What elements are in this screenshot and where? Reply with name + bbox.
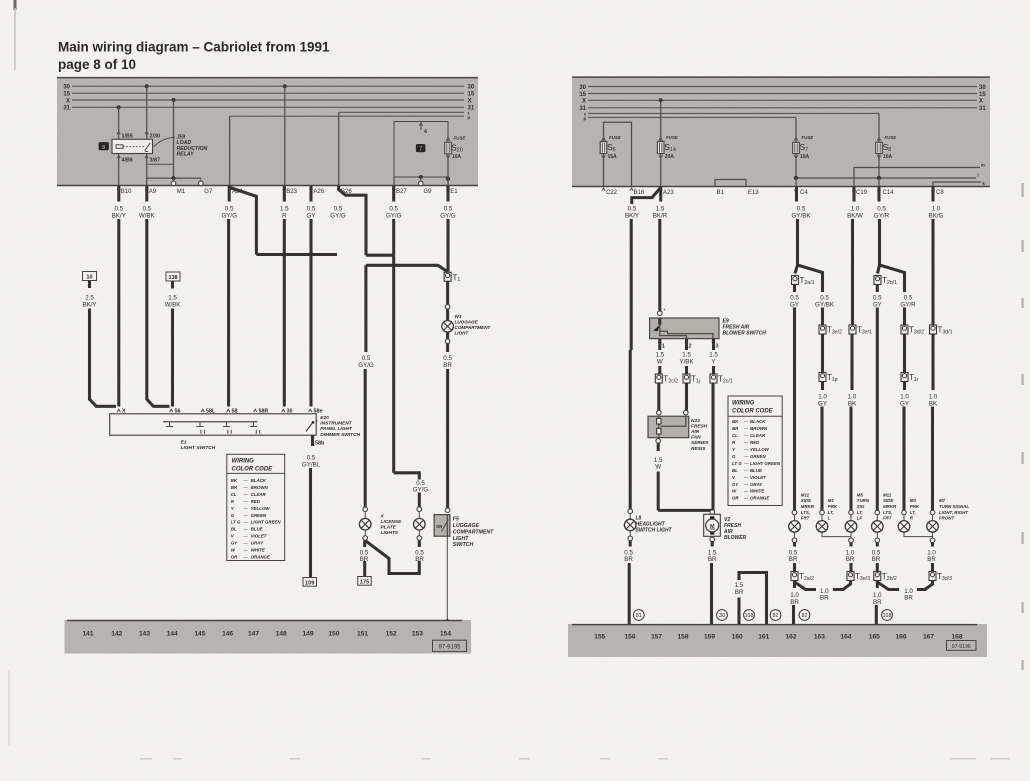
left license lamp [364, 512, 366, 519]
connector T3d/3 [929, 572, 936, 581]
E1 terminal 58R [254, 409, 257, 412]
relay position black box 7 [416, 144, 426, 152]
E1 terminal 58L [201, 409, 204, 412]
connector T1 on luggage light wire [446, 272, 449, 273]
terminal circle above N23 [657, 410, 662, 415]
fuse S20 symbol [446, 138, 450, 141]
connector T3e/1 [849, 325, 856, 334]
connector T3d/1 [930, 325, 937, 334]
fuse S14 [660, 100, 662, 186]
wire col5 down [903, 308, 906, 325]
wire below T2b/1 0.5 GY [876, 285, 879, 293]
relay terminal 1/B5 label [117, 132, 120, 135]
wire E1 0.5 GY/G down [446, 186, 449, 202]
wire A24 branch to bus jog [230, 188, 257, 255]
left license lamp bottom circle [363, 536, 368, 541]
right license lamp [418, 512, 420, 519]
wire pin2 1.5 Y/BK [685, 344, 688, 350]
connector T2a/1 [792, 276, 799, 285]
E9 internal wiring [660, 325, 713, 339]
wire A23 1.5 BK/R down [659, 187, 662, 202]
fuse S20 enclosure box [394, 122, 448, 186]
wire line z down to B26 [338, 112, 340, 185]
wire B26 jog to B27 [366, 254, 394, 257]
wire S20 to E1 exit [447, 177, 449, 186]
node on line31 at 1/B5 feed [117, 105, 121, 109]
wire pin3 1.5 Y [712, 344, 715, 350]
terminal circle above F5 [445, 508, 450, 513]
bus line 15 left [72, 92, 464, 94]
left panel gray band [57, 77, 478, 186]
wire A9 0.5 W/BK down with elbow to 56 [145, 186, 148, 202]
wire S8 to C14 [878, 178, 880, 187]
U wire to V2 [658, 510, 712, 515]
wiring color code box right [728, 396, 782, 506]
fuse S8 [878, 135, 880, 177]
node bus jog B23 [282, 252, 287, 257]
wire lineX down to A9 bar [173, 100, 175, 178]
wire B10 0.5 BK/Y down to light switch X [117, 186, 120, 202]
bus line 31 right [588, 107, 977, 109]
E1 internal contact [253, 422, 255, 427]
lamp W3 luggage compartment light [446, 309, 449, 321]
terminal circle pin2 end [684, 410, 689, 415]
wire T1 to W3 [446, 281, 449, 304]
terminal circle above W3 [445, 305, 450, 310]
node S20 to G9 [419, 175, 423, 179]
E1 terminal X [117, 409, 120, 412]
connector T2a/2 [791, 572, 798, 581]
wiring color code box left [227, 454, 285, 560]
E1 terminal 58 [227, 409, 230, 412]
node on lineX at A9 feed [172, 98, 176, 102]
node bus jog A26 [309, 252, 314, 257]
bottom left gray band [65, 620, 472, 654]
lamp M3 parking light right [902, 510, 907, 515]
connector T1j [683, 374, 690, 383]
wire lamp bottoms bridge [366, 541, 420, 574]
wire B26 0.5 GY/G jog right [339, 186, 366, 256]
fuse S7 [795, 135, 797, 178]
bus line X left [72, 99, 464, 101]
wire horizontal to T1 [366, 265, 448, 272]
wire col1 below T2a/2 to track 162 [793, 581, 796, 589]
wire C4 fork to right column [798, 265, 823, 292]
ground 108 track 165 [882, 610, 893, 621]
fuse S8 feed from line z [878, 113, 880, 135]
diagram number 97-9196 [947, 641, 977, 651]
lamp M5 turn signal left front [849, 510, 854, 515]
line m from C19 [854, 168, 980, 187]
relay terminal 4/B6 label [117, 155, 120, 158]
E1 internal contact pair [227, 430, 229, 434]
wire A23 elbow to B16 column [632, 188, 661, 205]
bridge col1-col3 1.0 BR [795, 582, 817, 590]
E1 internal contact [169, 422, 171, 427]
wire C8 1.0 BK/G down [931, 187, 934, 202]
node S20 to E1 [446, 177, 450, 181]
fuse S7 feed from line p [795, 117, 797, 135]
scan grain overlays [57, 77, 990, 658]
lamp M11 side marker front right [875, 510, 880, 515]
connector T3e/2 [819, 325, 826, 334]
node on line30 at 2/30 feed [145, 84, 149, 88]
wire col1 0.5 BR [793, 543, 796, 547]
thin link M1 to M5 [822, 532, 851, 536]
motor V2 fresh air blower [704, 514, 721, 536]
wire line30 to relay 2/30 [146, 86, 148, 139]
E1 internal contact pair [255, 430, 257, 434]
wire col2 down [821, 308, 824, 325]
connector T1r [901, 373, 908, 382]
E9 pin 3 [712, 342, 715, 345]
wire pin1 1.5 W [658, 344, 661, 350]
E1 terminal 56 [170, 409, 173, 412]
line l S7 to right edge [796, 177, 976, 179]
connector T2c/2 [655, 374, 662, 383]
connector T3e/3 [847, 572, 854, 581]
switch F5 body [434, 515, 450, 537]
page edge artifact top-left [14, 0, 17, 10]
terminal circle below N23 [656, 439, 661, 444]
left band top edge [57, 77, 478, 79]
terminal G9 circle [420, 177, 422, 181]
wire 138 down to 56 [171, 309, 174, 407]
bus line 30 right [588, 86, 977, 88]
wire C14 through T2b/1 [878, 265, 880, 274]
wire B16 0.5 BK/Y down to L8 [630, 219, 633, 350]
wire C4 0.5 GY/BK down [795, 187, 798, 202]
wire C14 fork to right column [880, 265, 905, 292]
wire bus to terminal 58e [309, 255, 312, 407]
wire down to 109 [309, 468, 312, 578]
terminal circle above V2 [710, 510, 715, 515]
wire line31 to relay 1/B5 [118, 107, 120, 139]
wire B23 1.5 R [283, 186, 286, 202]
wire line30 down to B23 [284, 86, 286, 185]
E1 internal contact pair [200, 430, 202, 434]
node on line30 at B23 feed [283, 84, 287, 88]
connector T2b/1 [874, 276, 881, 285]
wire col3 1.0 BR [849, 543, 852, 547]
connector T2b/2 [874, 572, 881, 581]
ground 30 [717, 610, 728, 621]
left band bottom edge [57, 185, 478, 187]
right band top edge [572, 76, 990, 78]
scan artifacts [1022, 183, 1024, 197]
bracket B1-E13 [715, 180, 746, 187]
bus line z right (to S8) [588, 112, 879, 114]
bar A9-M1-G7 [147, 177, 201, 179]
right license lamp bottom circle [417, 536, 422, 541]
terminal circle below W3 [445, 339, 450, 344]
wire C4 through T2a/1 [795, 265, 798, 274]
E1 internal contact [226, 422, 228, 427]
node bar at lineX feed [172, 176, 176, 180]
leader line J59 [154, 138, 175, 147]
wire 58b 0.5 GY/BL down [311, 435, 314, 446]
bus line z (to B26) [339, 111, 464, 113]
wire below T2a/1 0.5 GY [793, 285, 796, 293]
lamp M11 side marker front left [792, 510, 797, 515]
bottom left band top edge [67, 620, 462, 622]
connector T2c/1 [710, 374, 717, 383]
wire bus to terminal 30 [283, 255, 286, 407]
left license lamp top circle [363, 507, 368, 512]
wire col4 0.5 BR [876, 543, 879, 547]
switch E9 body [650, 318, 719, 339]
connector box 138 [166, 272, 180, 281]
bus line X right [588, 99, 977, 101]
ground 82 track 161 [770, 610, 781, 621]
bus line 15 right [588, 93, 977, 95]
wire B27 feed (enclosure left edge) [393, 177, 395, 186]
E1 internal contact [199, 422, 201, 427]
terminal circle below V2 [710, 537, 715, 542]
bottom right gray band [568, 624, 987, 657]
line k from C8 [933, 182, 981, 187]
thin link lineX-feed to 3/87 wire [147, 163, 174, 165]
ground 108 track 160 [744, 610, 755, 621]
light switch E1 body [110, 414, 317, 435]
E1 terminal 30 [282, 409, 285, 412]
E9 pin 1 [658, 342, 661, 345]
wire A24 0.5 GY/G down to 58 [228, 186, 231, 202]
wire relay 3/87 down to A9 bar [146, 154, 148, 186]
E1 terminal 58e [309, 409, 312, 412]
wire N23 1.5 W down [657, 443, 660, 451]
wire A26 0.5 GY [309, 186, 312, 202]
relay switch contact [145, 143, 151, 151]
E9 pin 2 [685, 342, 688, 345]
lamp M1 parking light left [820, 510, 825, 515]
right band bottom edge [572, 186, 990, 188]
relay terminal 2/30 label [145, 132, 148, 135]
connector box 109 [303, 578, 317, 587]
thin link M3 to M7 [904, 532, 933, 536]
wire col6 1.0 BR [931, 543, 934, 547]
terminal circle A23 at E9 [658, 311, 663, 316]
terminal 4 stub of S20 block [419, 123, 422, 126]
dimmer switch E20 symbol [306, 422, 314, 432]
wire B27 0.5 GY/G [392, 186, 395, 202]
relay coil symbol [116, 145, 123, 149]
wire W3 down 0.5 BR [446, 344, 449, 352]
connector box 175 [358, 577, 372, 586]
wire C14 0.5 GY/R down [877, 187, 880, 202]
lamp L8 headlight switch light [628, 509, 633, 514]
lamp M7 turn signal right front [930, 510, 935, 515]
relay J59 body [112, 139, 153, 153]
fuse S14 feed node on line X [659, 98, 663, 102]
bridge col4-col6 1.0 BR [877, 582, 899, 590]
bus line 30 left [72, 85, 464, 87]
wire 10 down elbow to X [90, 309, 117, 407]
fuse S6 [603, 135, 605, 187]
E1 internal contact bar [163, 421, 258, 423]
wire C19 1.0 BK/W down [852, 187, 855, 202]
bus line p (to A24) [230, 115, 464, 117]
wire left-lamp feed 0.5 GY/G [364, 265, 367, 352]
wire relay 4/B6 down to B10 [118, 154, 120, 186]
wire loop 1.5 BR tracks 160-161 [737, 598, 740, 625]
ground 82 track 162 [799, 610, 810, 621]
ground 81 [633, 610, 644, 621]
node at track 154 [445, 619, 449, 623]
N23 resistor elements [658, 416, 660, 438]
wire F5 down to track 154 [446, 536, 448, 621]
relay position black box 8 [99, 142, 109, 150]
wire B27 elbow to right lamp [394, 473, 420, 480]
bottom right band top edge [572, 624, 977, 626]
right license lamp top circle [417, 507, 422, 512]
connector box 10 [83, 272, 97, 281]
connector T1p [819, 373, 826, 382]
diagram number 97-9195 [433, 640, 467, 651]
bus line p right (to S7) [588, 116, 796, 118]
N23 internal line from pin2 [661, 416, 686, 426]
terminal G7 circle [200, 178, 202, 181]
relay terminal 3/87 label [145, 155, 148, 158]
wire col4 below T2b/2 to track 165 [876, 581, 879, 589]
wire line p down to A24 [229, 116, 231, 185]
resistor N23 fresh air fan series resistance [648, 416, 689, 438]
wire left lamp to 175 0.5 BR [363, 540, 366, 547]
wire L8 0.5 BR to track 156 [629, 541, 632, 547]
bus jog horizontal [256, 253, 337, 256]
E9 internal switch arrow [658, 318, 661, 325]
fuse S6 bracket [604, 122, 632, 186]
wire B27 down to license lamp right [392, 255, 395, 473]
E1 terminal 58b [311, 438, 314, 441]
wire S7 to C4 [795, 178, 797, 187]
wire V2 1.5 BR to track 159 [711, 541, 714, 547]
right panel gray band [572, 77, 990, 187]
bus line 31 left [72, 106, 464, 108]
connector T3d/2 [901, 325, 908, 334]
fuse S20 wire [447, 135, 449, 177]
terminal M1 circle [173, 178, 175, 181]
